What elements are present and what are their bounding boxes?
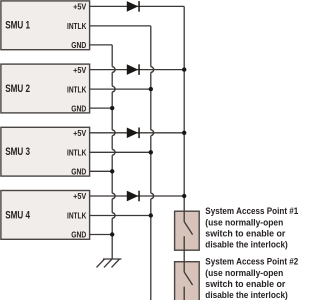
wire SMU2 +5V row: [90, 69, 185, 71]
wire +5V bus vertical: [183, 6, 185, 211]
svg-text:INTLK: INTLK: [67, 211, 86, 221]
wire SMU2 INTLK row: [90, 88, 151, 90]
diode D3: [127, 128, 140, 139]
SMU 2 box: [1, 64, 90, 113]
wire SMU4 INTLK row: [90, 215, 151, 217]
svg-text:SMU 2: SMU 2: [5, 83, 30, 95]
hop GND bus over SMU2 +5V: [112, 67, 115, 73]
svg-text:(use normally-open: (use normally-open: [205, 217, 283, 227]
label System Access Point #1: [205, 206, 298, 249]
junction dot GND bus SMU3: [110, 169, 114, 173]
SMU 1 box: [1, 1, 90, 50]
wire SMU1 GND row: [90, 44, 113, 46]
svg-text:GND: GND: [71, 40, 86, 50]
junction dot INTLK bus SMU3: [149, 150, 153, 154]
svg-text:GND: GND: [71, 103, 86, 113]
diode D2: [127, 64, 140, 75]
junction dot +5V bus SMU2: [182, 67, 186, 71]
wire SMU1 +5V row: [90, 5, 185, 7]
wire GND bus vertical: [111, 45, 113, 259]
wire SMU3 +5V row: [90, 132, 185, 134]
svg-text:GND: GND: [71, 230, 86, 240]
SMU 3 box: [1, 127, 90, 176]
svg-text:disable the interlock): disable the interlock): [205, 240, 287, 250]
svg-text:switch to enable or: switch to enable or: [205, 279, 285, 289]
hop INTLK bus over SMU2 +5V: [151, 67, 154, 73]
svg-text:System Access Point #1: System Access Point #1: [205, 206, 298, 216]
junction dot INTLK bus SMU2: [149, 87, 153, 91]
wire SMU1 INTLK row: [90, 25, 151, 27]
wire SMU4 GND row: [90, 234, 113, 236]
svg-text:(use normally-open: (use normally-open: [205, 268, 283, 278]
svg-text:SMU 3: SMU 3: [5, 146, 30, 158]
wire SMU3 GND row: [90, 170, 113, 172]
svg-text:+5V: +5V: [73, 2, 87, 12]
switch S1 box (System Access Point #1): [175, 211, 200, 262]
svg-text:System Access Point #2: System Access Point #2: [205, 257, 298, 267]
wire SMU2 GND row: [90, 107, 113, 109]
hop INTLK bus over SMU3 +5V: [151, 130, 154, 136]
svg-text:INTLK: INTLK: [67, 148, 86, 158]
svg-text:GND: GND: [71, 167, 86, 177]
wire INTLK bus vertical: [150, 26, 152, 300]
hop GND bus over SMU4 +5V: [112, 193, 115, 199]
svg-text:INTLK: INTLK: [67, 21, 86, 31]
ground: [97, 259, 122, 267]
wire SMU3 INTLK row: [90, 151, 151, 153]
junction dot GND bus SMU2: [110, 106, 114, 110]
hop GND bus over SMU3 +5V: [112, 130, 115, 136]
svg-text:disable the interlock): disable the interlock): [205, 290, 287, 300]
hop GND bus over SMU4 INTLK: [112, 213, 115, 219]
svg-text:SMU 4: SMU 4: [5, 209, 30, 221]
junction dot GND bus SMU4: [110, 232, 114, 236]
label System Access Point #2: [205, 257, 298, 300]
svg-text:INTLK: INTLK: [67, 84, 86, 94]
svg-text:+5V: +5V: [73, 65, 87, 75]
junction dot INTLK bus SMU4: [149, 213, 153, 217]
svg-text:+5V: +5V: [73, 128, 87, 138]
SMU 4 box: [1, 191, 90, 240]
svg-text:SMU 1: SMU 1: [5, 20, 30, 32]
junction dot +5V bus SMU3: [182, 131, 186, 135]
diode D1: [127, 1, 140, 12]
svg-text:+5V: +5V: [73, 191, 87, 201]
junction dot +5V bus SMU4: [182, 194, 186, 198]
hop GND bus over SMU3 INTLK: [112, 150, 115, 156]
switch S2 box (System Access Point #2): [175, 262, 200, 300]
hop GND bus over SMU2 INTLK: [112, 86, 115, 92]
svg-text:switch to enable or: switch to enable or: [205, 228, 285, 238]
diode D4: [127, 191, 140, 202]
hop INTLK bus over SMU4 +5V: [151, 193, 154, 199]
wire SMU4 +5V row: [90, 195, 185, 197]
